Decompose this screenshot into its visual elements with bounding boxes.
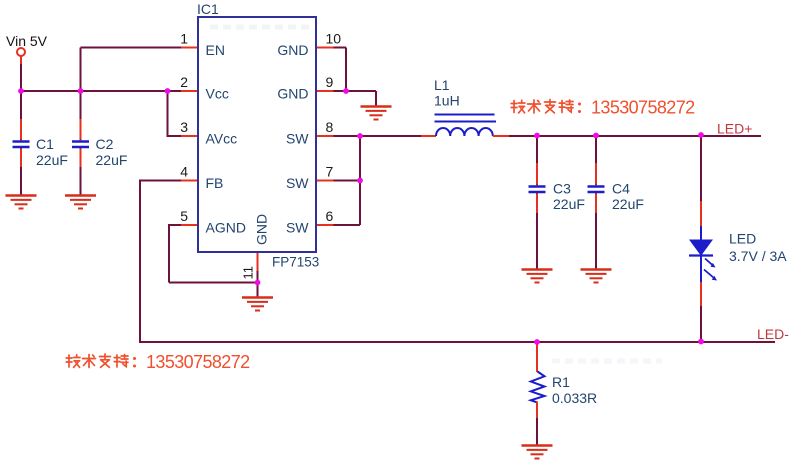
svg-text:EN: EN <box>206 42 225 58</box>
wire R1 branch <box>536 342 538 445</box>
wire Vin drop <box>20 56 22 91</box>
wire LED+ rail <box>508 135 761 137</box>
wire AGND horizontal <box>169 224 183 226</box>
junction (pin8 SW) <box>357 133 363 139</box>
svg-text:SW: SW <box>286 131 309 147</box>
wire pin10 horizontal <box>332 47 346 49</box>
svg-text:GND: GND <box>254 214 270 245</box>
op-amp/regulator IC1 body <box>198 17 316 252</box>
faint watermark row inside IC <box>210 25 312 30</box>
junction (pin7 SW) <box>357 178 363 184</box>
pin 6 (SW) <box>286 208 334 236</box>
svg-text:22uF: 22uF <box>612 196 644 212</box>
svg-text:7: 7 <box>326 164 334 180</box>
IC1 part number FP7153 <box>272 255 319 270</box>
svg-text:LED-: LED- <box>757 326 789 342</box>
pin 11 (GND bottom) <box>241 214 270 280</box>
svg-text:22uF: 22uF <box>553 196 585 212</box>
pin 3 (AVcc) <box>180 119 237 147</box>
svg-text:GND: GND <box>277 86 308 102</box>
wire C2 branch <box>80 91 82 195</box>
svg-text:3: 3 <box>180 119 188 135</box>
pin 2 (Vcc) <box>180 74 229 102</box>
net label LED+ <box>717 121 752 137</box>
wire SW pin7 <box>333 180 360 182</box>
resistor R1 <box>531 344 597 418</box>
svg-text:0.033R: 0.033R <box>552 390 597 406</box>
capacitor C4 <box>588 163 644 213</box>
svg-text:SW: SW <box>286 220 309 236</box>
svg-text:1uH: 1uH <box>434 93 460 109</box>
svg-text:AGND: AGND <box>206 220 246 236</box>
capacitor C1 <box>13 119 68 168</box>
svg-text:GND: GND <box>277 42 308 58</box>
wire pin9 to ground stem <box>333 91 376 106</box>
wire FB horizontal <box>140 180 183 182</box>
svg-text:1: 1 <box>180 31 188 47</box>
wire pin10 drop <box>345 48 347 92</box>
capacitor C3 <box>529 163 585 213</box>
junction (pin11 gnd) <box>255 280 261 286</box>
ground (pin 11) <box>242 298 273 311</box>
junction (C2/EN) <box>78 88 84 94</box>
junction (LED+ branch) <box>698 132 704 138</box>
IC1 designator <box>197 1 219 17</box>
wire AVcc drop <box>167 91 169 136</box>
junction (pin9/pin10) <box>343 88 349 94</box>
port Vin 5V <box>6 33 48 64</box>
svg-text:Vcc: Vcc <box>206 86 229 102</box>
svg-text:2: 2 <box>180 74 188 90</box>
wire EN horizontal <box>81 47 184 49</box>
svg-text:C1: C1 <box>36 136 54 152</box>
svg-text:FP7153: FP7153 <box>272 255 319 270</box>
pin 10 (GND) <box>277 31 341 59</box>
svg-text:R1: R1 <box>552 374 570 390</box>
ground (C3) <box>522 270 553 283</box>
wire SW bus pin8 <box>333 135 360 137</box>
svg-text:LED: LED <box>729 231 756 247</box>
pin 8 (SW) <box>286 119 334 147</box>
svg-text:4: 4 <box>180 164 188 180</box>
wire AGND to pin11 <box>169 282 258 284</box>
wire LED- rail <box>139 341 775 343</box>
pin 7 (SW) <box>286 164 334 192</box>
svg-text:6: 6 <box>326 208 334 224</box>
svg-text:10: 10 <box>326 31 342 47</box>
inductor L1 <box>421 77 509 136</box>
ground (R1) <box>522 446 553 459</box>
svg-text:22uF: 22uF <box>36 152 68 168</box>
faint watermark row near R1 <box>552 359 662 364</box>
svg-text:Vin 5V: Vin 5V <box>6 33 48 49</box>
junction (C3 top) <box>534 133 540 139</box>
capacitor C2 <box>72 119 127 168</box>
svg-text:22uF: 22uF <box>96 152 128 168</box>
ground (C1) <box>6 196 37 209</box>
pin 1 (EN) <box>180 31 225 59</box>
junction (Vin/C1) <box>18 88 24 94</box>
support text top: 技术支持: 13530758272 <box>511 98 695 118</box>
wire C4 branch <box>595 136 597 269</box>
junction (C4 top) <box>593 133 599 139</box>
net label LED- <box>757 326 789 342</box>
ground (C4) <box>581 270 612 283</box>
wire LED branch <box>700 136 702 342</box>
pin 4 (FB) <box>180 164 223 192</box>
svg-text:8: 8 <box>326 119 334 135</box>
svg-text:FB: FB <box>206 175 224 191</box>
wire pin11 to ground <box>257 270 259 297</box>
wire AVcc horizontal <box>167 135 185 137</box>
wire EN riser <box>80 48 82 92</box>
wire SW pin6 <box>333 224 360 226</box>
svg-text:AVcc: AVcc <box>206 131 238 147</box>
support text bottom: 技术支持: 13530758272 <box>66 352 250 372</box>
svg-text:LED+: LED+ <box>717 121 752 137</box>
svg-text:C4: C4 <box>612 181 630 197</box>
svg-text:IC1: IC1 <box>197 1 219 17</box>
svg-text:9: 9 <box>326 74 334 90</box>
junction (R1 top) <box>534 339 540 345</box>
wire C1 branch <box>20 91 22 195</box>
svg-text:C2: C2 <box>96 136 114 152</box>
wire FB drop <box>139 180 141 343</box>
svg-text:11: 11 <box>241 266 256 280</box>
LED D1 <box>689 201 787 306</box>
svg-text:C3: C3 <box>553 181 571 197</box>
wire C3 branch <box>536 136 538 269</box>
junction (LED bottom) <box>698 339 704 345</box>
wire Vcc rail <box>20 90 182 92</box>
svg-text:SW: SW <box>286 175 309 191</box>
pin 9 (GND) <box>277 74 333 102</box>
junction (AVcc) <box>165 88 171 94</box>
pin 5 (AGND) <box>180 208 246 236</box>
ground (C2) <box>65 196 96 209</box>
svg-text:5: 5 <box>180 208 188 224</box>
svg-text:3.7V / 3A: 3.7V / 3A <box>729 248 787 264</box>
ground (pin 9) <box>361 107 392 120</box>
wire SW bus vertical <box>359 135 361 225</box>
wire AGND drop <box>168 224 170 283</box>
wire SW to L1 <box>360 135 422 137</box>
svg-text:L1: L1 <box>434 77 450 93</box>
